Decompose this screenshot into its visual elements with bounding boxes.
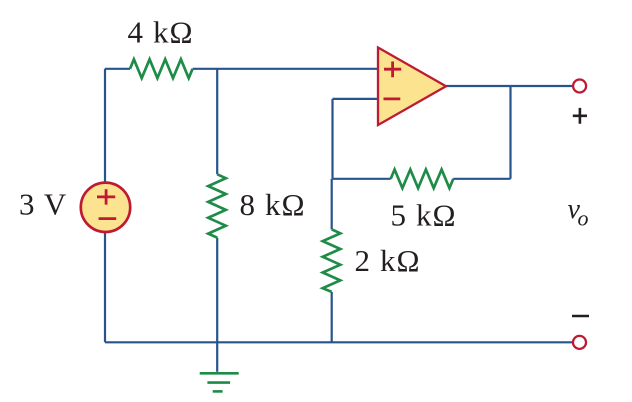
wire: top-left horizontal from source top to 4k resistor <box>105 68 130 70</box>
wire: feedback left segment to 5k resistor <box>333 178 391 180</box>
svg-text:5 kΩ: 5 kΩ <box>391 197 457 232</box>
svg-text:8 kΩ: 8 kΩ <box>240 187 306 222</box>
wire: inverting input horizontal <box>333 98 380 100</box>
wire: bottom horizontal rail <box>105 341 573 343</box>
wire: inverting input vertical down to feedback node <box>331 99 333 179</box>
op-amp noninverting plus sign <box>384 62 401 78</box>
terminal: output bottom (-) <box>573 336 586 349</box>
wire: feedback right segment from 5k resistor <box>453 178 510 180</box>
wire: top horizontal from 4k resistor to op-amp noninverting input <box>193 68 379 70</box>
voltage source minus sign <box>99 217 117 220</box>
voltage source 3 V (circle) <box>81 183 130 232</box>
wire: left vertical from top wire through source to bottom wire <box>104 69 106 343</box>
wire: 2k branch upper segment <box>331 179 333 230</box>
svg-text:o: o <box>578 206 589 231</box>
svg-text:2 kΩ: 2 kΩ <box>355 243 421 278</box>
wire: ground stub <box>216 342 218 372</box>
wire: output horizontal to top terminal <box>446 85 573 87</box>
wire: 2k branch lower segment <box>331 292 333 342</box>
terminal: output top (+) <box>573 80 586 93</box>
wire: 8k branch lower segment <box>216 238 218 343</box>
resistor 4 kOhm (horizontal, top) <box>130 59 193 78</box>
op-amp inverting minus sign <box>384 98 401 101</box>
svg-text:4 kΩ: 4 kΩ <box>128 15 194 50</box>
svg-text:3 V: 3 V <box>19 187 67 222</box>
op-amp U1 (triangle) <box>378 48 446 126</box>
resistor 5 kOhm (horizontal, feedback) <box>391 170 454 189</box>
resistor 2 kOhm (vertical) <box>323 229 341 292</box>
wire: 8k branch upper segment <box>216 69 218 175</box>
output minus sign <box>572 315 589 318</box>
voltage source plus sign <box>97 189 115 204</box>
ground <box>200 373 239 391</box>
resistor 8 kOhm (vertical, middle) <box>208 174 226 237</box>
wire: right vertical from output down to feedback <box>509 86 511 179</box>
output plus sign <box>573 108 587 124</box>
